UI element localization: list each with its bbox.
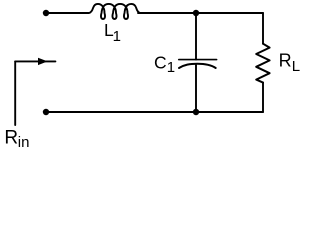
svg-text:R: R <box>4 128 18 149</box>
label L1 <box>104 20 121 45</box>
wire bottom rail <box>46 111 263 113</box>
label Rin <box>4 128 29 151</box>
wire top rail right segment <box>138 12 263 14</box>
wire capacitor branch lower <box>195 65 197 112</box>
wire right branch upper <box>262 13 264 44</box>
node junction of L1, C1 and top rail <box>193 10 199 16</box>
label C1 <box>154 52 175 76</box>
node bottom-left input terminal <box>43 109 49 115</box>
wire capacitor branch upper <box>195 13 197 60</box>
svg-text:C: C <box>154 52 167 72</box>
wire top rail left segment <box>46 12 89 14</box>
svg-text:R: R <box>279 50 292 70</box>
wire right branch lower <box>262 83 264 112</box>
svg-text:1: 1 <box>167 59 175 76</box>
svg-text:L: L <box>292 58 300 75</box>
capacitor C1 <box>179 60 217 68</box>
wire Rin pickoff vertical <box>14 61 16 125</box>
node junction of C1 branch and bottom rail <box>193 109 199 115</box>
svg-text:in: in <box>18 134 30 151</box>
inductor L1 <box>89 4 140 19</box>
node top-left input terminal <box>43 10 49 16</box>
svg-text:1: 1 <box>113 28 121 45</box>
wire Rin pickoff horizontal <box>15 60 55 62</box>
label RL <box>279 50 301 75</box>
Rin arrow head pointing into circuit <box>38 58 48 65</box>
resistor RL <box>256 44 269 83</box>
